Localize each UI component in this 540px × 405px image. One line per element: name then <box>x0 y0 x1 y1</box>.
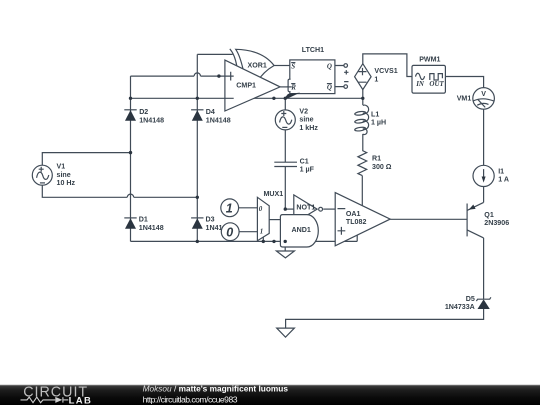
svg-text:sine: sine <box>299 116 313 124</box>
svg-text:CMP1: CMP1 <box>236 82 256 90</box>
svg-text:VCVS1: VCVS1 <box>374 67 397 75</box>
svg-text:Moksou / matte's magnificent l: Moksou / matte's magnificent luomus <box>143 384 289 394</box>
svg-text:sine: sine <box>57 171 71 179</box>
svg-text:R1: R1 <box>372 155 381 163</box>
svg-text:Q1: Q1 <box>484 211 494 219</box>
svg-text:300 Ω: 300 Ω <box>372 163 392 171</box>
svg-text:MUX1: MUX1 <box>264 190 284 198</box>
svg-text:AND1: AND1 <box>292 226 311 234</box>
svg-text:0: 0 <box>226 225 233 239</box>
svg-text:R: R <box>290 84 296 92</box>
svg-text:1: 1 <box>226 201 233 215</box>
svg-text:http://circuitlab.com/ccue983: http://circuitlab.com/ccue983 <box>143 395 238 405</box>
svg-text:L1: L1 <box>371 110 379 118</box>
svg-text:1 kHz: 1 kHz <box>299 124 318 132</box>
svg-text:1 A: 1 A <box>498 176 509 184</box>
svg-text:S: S <box>291 63 295 71</box>
svg-text:OUT: OUT <box>429 80 444 88</box>
svg-text:Q: Q <box>327 63 332 71</box>
svg-text:V: V <box>481 90 486 98</box>
svg-text:D3: D3 <box>206 216 215 224</box>
svg-text:VM1: VM1 <box>457 94 472 102</box>
svg-text:1N4148: 1N4148 <box>139 116 164 124</box>
svg-text:1 µH: 1 µH <box>371 119 386 127</box>
svg-text:C1: C1 <box>300 157 309 165</box>
svg-text:D5: D5 <box>466 295 475 303</box>
svg-text:10 Hz: 10 Hz <box>57 179 76 187</box>
svg-text:NOT1: NOT1 <box>296 204 315 212</box>
svg-text:TL082: TL082 <box>346 218 367 226</box>
svg-text:1 µF: 1 µF <box>300 166 315 174</box>
svg-text:LAB: LAB <box>69 395 93 405</box>
svg-text:2N3906: 2N3906 <box>484 219 509 227</box>
svg-text:1: 1 <box>260 228 264 236</box>
svg-text:PWM1: PWM1 <box>419 56 440 64</box>
svg-text:XOR1: XOR1 <box>248 61 267 69</box>
svg-text:D1: D1 <box>139 216 148 224</box>
svg-text:I1: I1 <box>498 168 504 176</box>
svg-text:1N4148: 1N4148 <box>139 224 164 232</box>
svg-text:0: 0 <box>259 205 263 213</box>
svg-text:LTCH1: LTCH1 <box>302 46 324 54</box>
svg-text:1: 1 <box>374 76 378 84</box>
svg-text:V1: V1 <box>57 163 66 171</box>
svg-text:1N4733A: 1N4733A <box>445 303 475 311</box>
svg-text:1N4148: 1N4148 <box>206 116 231 124</box>
svg-text:OA1: OA1 <box>346 210 361 218</box>
svg-text:V2: V2 <box>299 107 308 115</box>
svg-text:IN: IN <box>415 80 425 88</box>
svg-text:D2: D2 <box>139 108 148 116</box>
svg-text:Q: Q <box>327 84 332 92</box>
svg-text:D4: D4 <box>206 108 215 116</box>
